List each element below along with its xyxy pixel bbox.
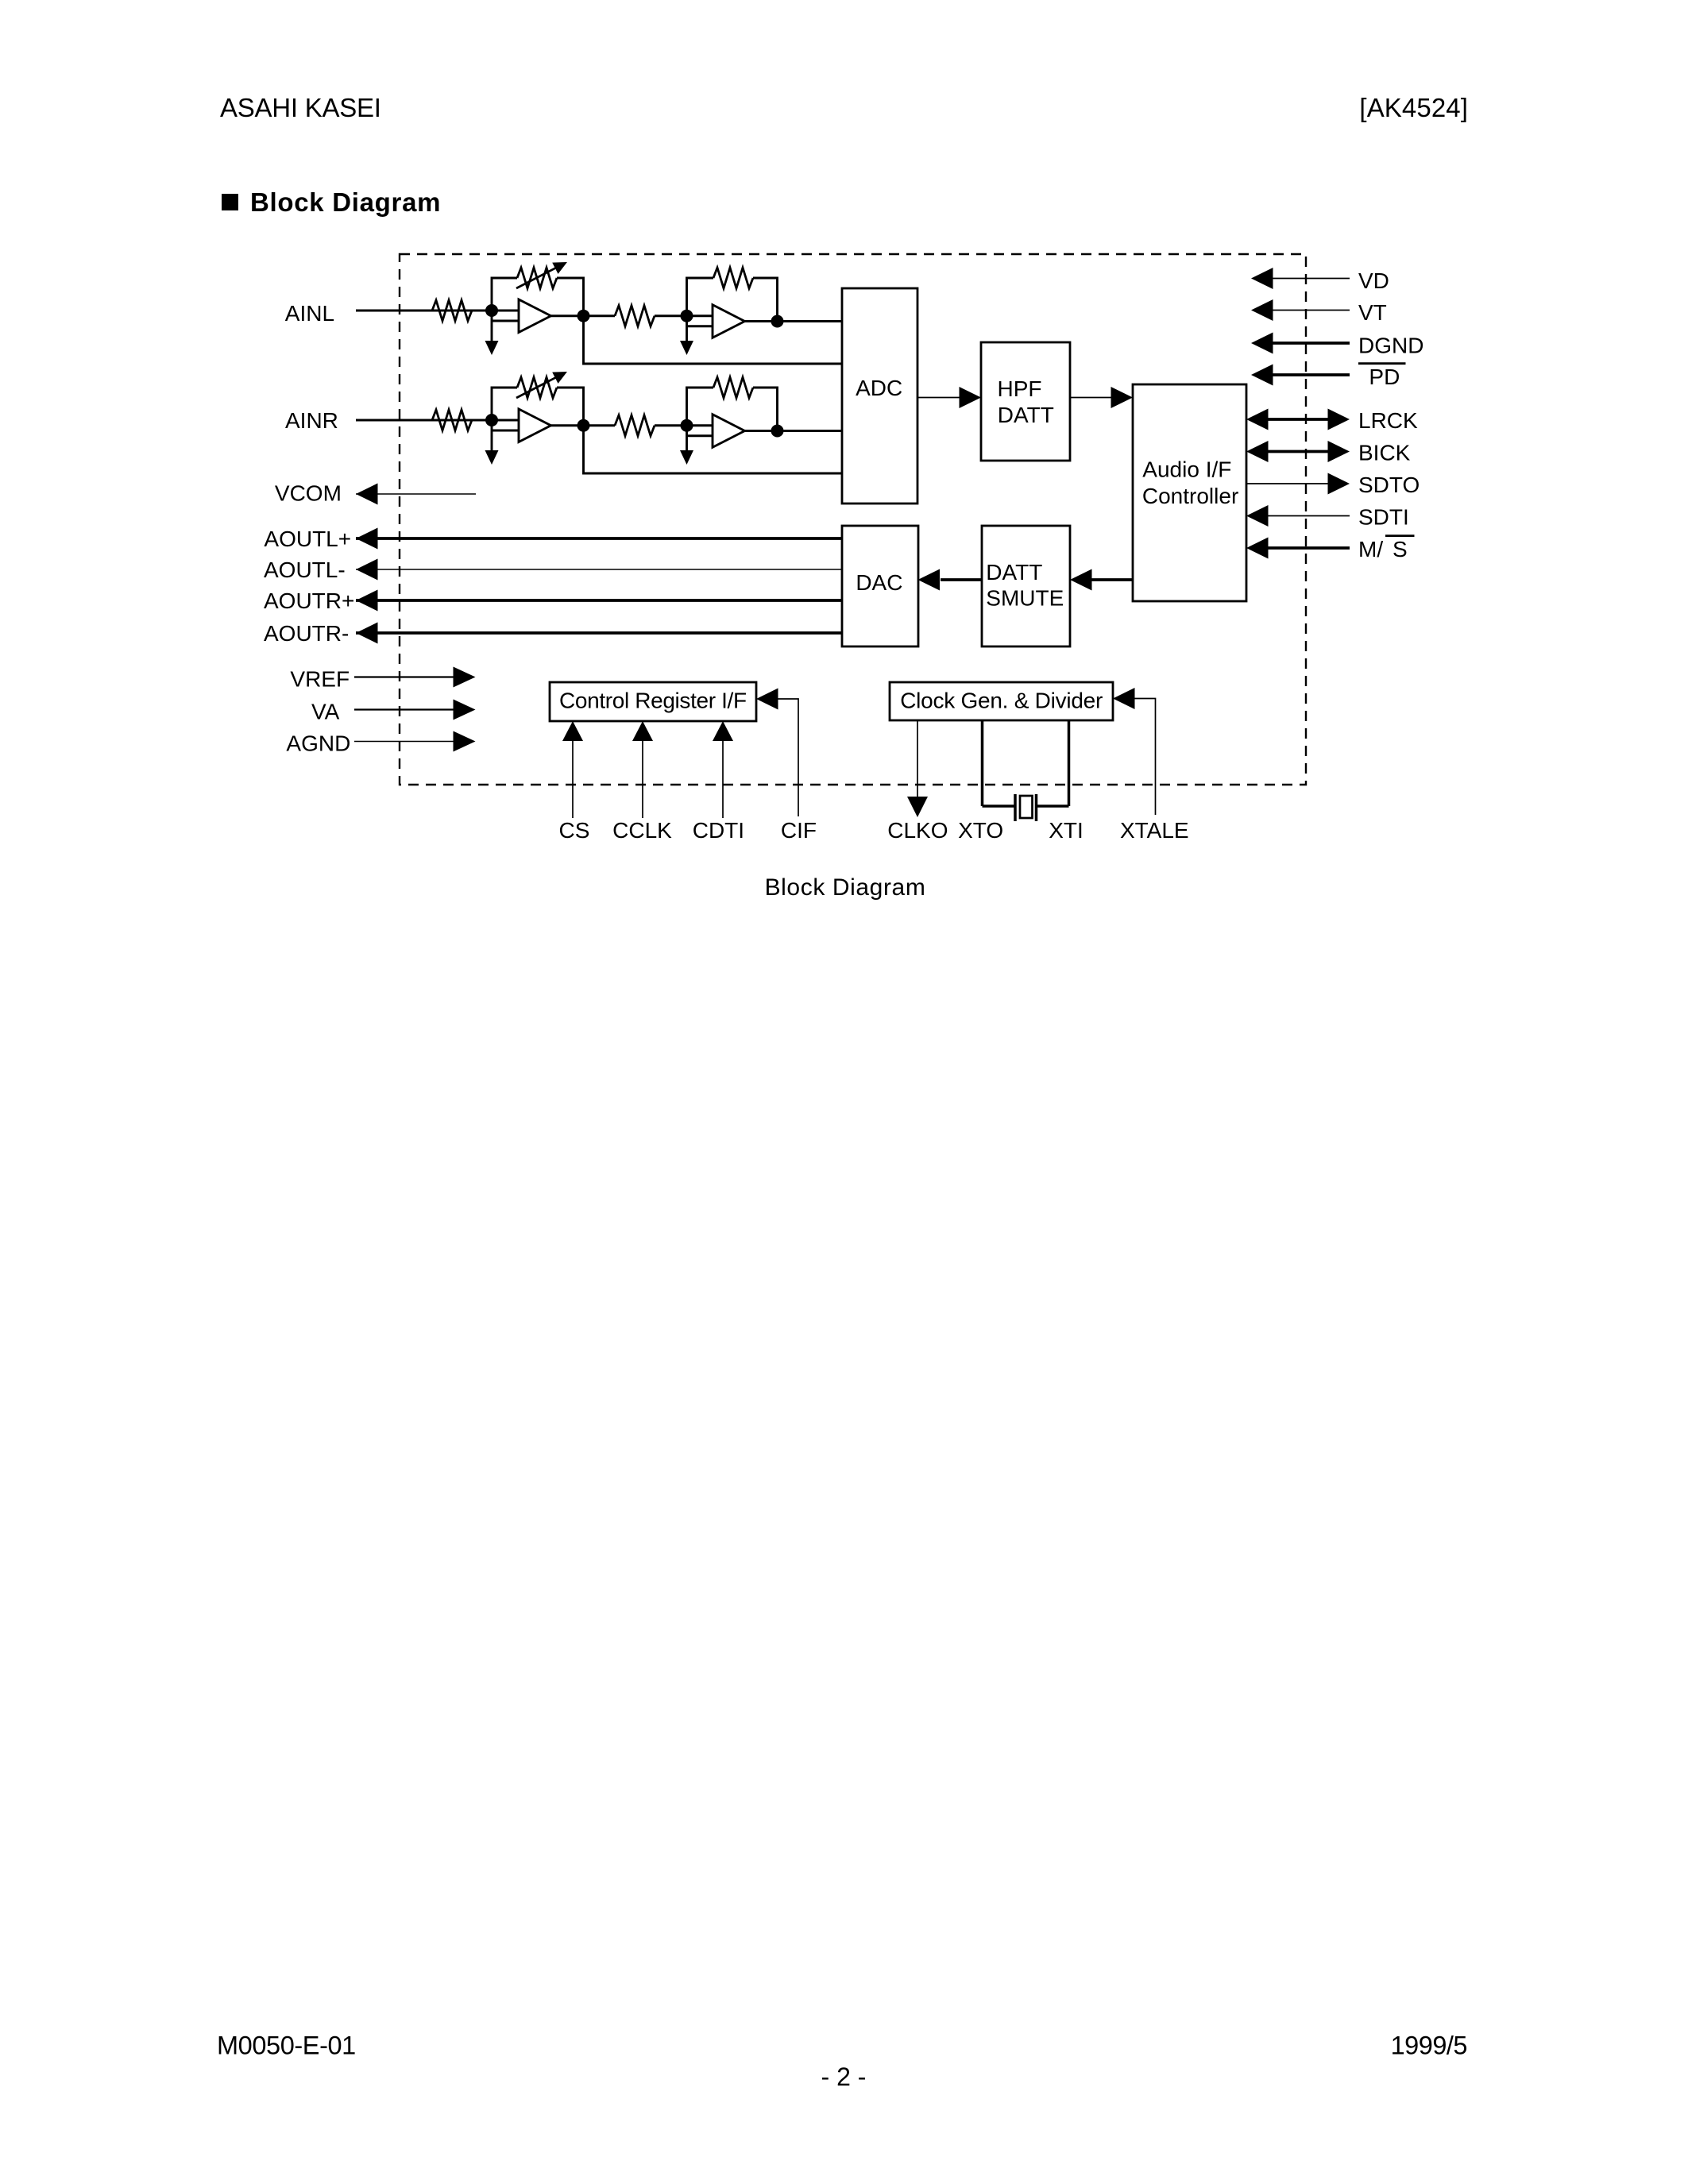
svg-text:AINL: AINL [285, 301, 334, 326]
svg-text:AGND: AGND [286, 731, 350, 756]
svg-text:SMUTE: SMUTE [986, 586, 1064, 611]
svg-text:[AK4524]: [AK4524] [1359, 93, 1468, 122]
svg-text:AOUTL-: AOUTL- [264, 558, 346, 582]
svg-text:M/: M/ [1358, 537, 1383, 561]
svg-text:SDTI: SDTI [1358, 505, 1409, 530]
svg-text:CLKO: CLKO [887, 818, 948, 843]
svg-text:LRCK: LRCK [1358, 408, 1418, 433]
svg-text:DATT: DATT [998, 403, 1054, 427]
svg-text:M0050-E-01: M0050-E-01 [217, 2032, 356, 2060]
svg-text:1999/5: 1999/5 [1391, 2032, 1467, 2060]
svg-text:CDTI: CDTI [693, 818, 744, 843]
svg-text:DATT: DATT [986, 560, 1042, 585]
svg-text:Clock Gen. & Divider: Clock Gen. & Divider [900, 689, 1103, 713]
svg-text:ADC: ADC [856, 376, 902, 400]
svg-text:PD: PD [1369, 365, 1400, 389]
svg-text:VCOM: VCOM [275, 481, 342, 506]
svg-text:Audio I/F: Audio I/F [1142, 457, 1231, 482]
svg-text:VA: VA [311, 700, 340, 724]
svg-text:VD: VD [1358, 268, 1389, 293]
svg-text:ASAHI KASEI: ASAHI KASEI [220, 93, 381, 122]
svg-text:AOUTR-: AOUTR- [264, 621, 349, 646]
svg-text:CIF: CIF [781, 818, 817, 843]
svg-text:DAC: DAC [856, 570, 902, 595]
svg-text:VT: VT [1358, 300, 1387, 325]
svg-text:AOUTR+: AOUTR+ [264, 588, 354, 613]
svg-text:Block Diagram: Block Diagram [765, 874, 926, 901]
svg-text:AOUTL+: AOUTL+ [264, 527, 351, 551]
svg-text:Block Diagram: Block Diagram [250, 187, 441, 217]
svg-text:DGND: DGND [1358, 334, 1423, 358]
svg-text:XTO: XTO [958, 818, 1003, 843]
svg-text:SDTO: SDTO [1358, 473, 1420, 497]
svg-text:Controller: Controller [1142, 484, 1238, 508]
svg-text:XTI: XTI [1049, 818, 1083, 843]
svg-text:Control Register I/F: Control Register I/F [559, 689, 747, 713]
svg-text:S: S [1393, 537, 1408, 561]
svg-text:AINR: AINR [285, 408, 338, 433]
svg-text:HPF: HPF [998, 376, 1042, 401]
svg-text:XTALE: XTALE [1120, 818, 1189, 843]
svg-text:CCLK: CCLK [612, 818, 672, 843]
svg-text:- 2 -: - 2 - [821, 2062, 867, 2091]
svg-text:VREF: VREF [290, 667, 350, 692]
svg-text:BICK: BICK [1358, 441, 1411, 465]
svg-text:CS: CS [559, 818, 590, 843]
